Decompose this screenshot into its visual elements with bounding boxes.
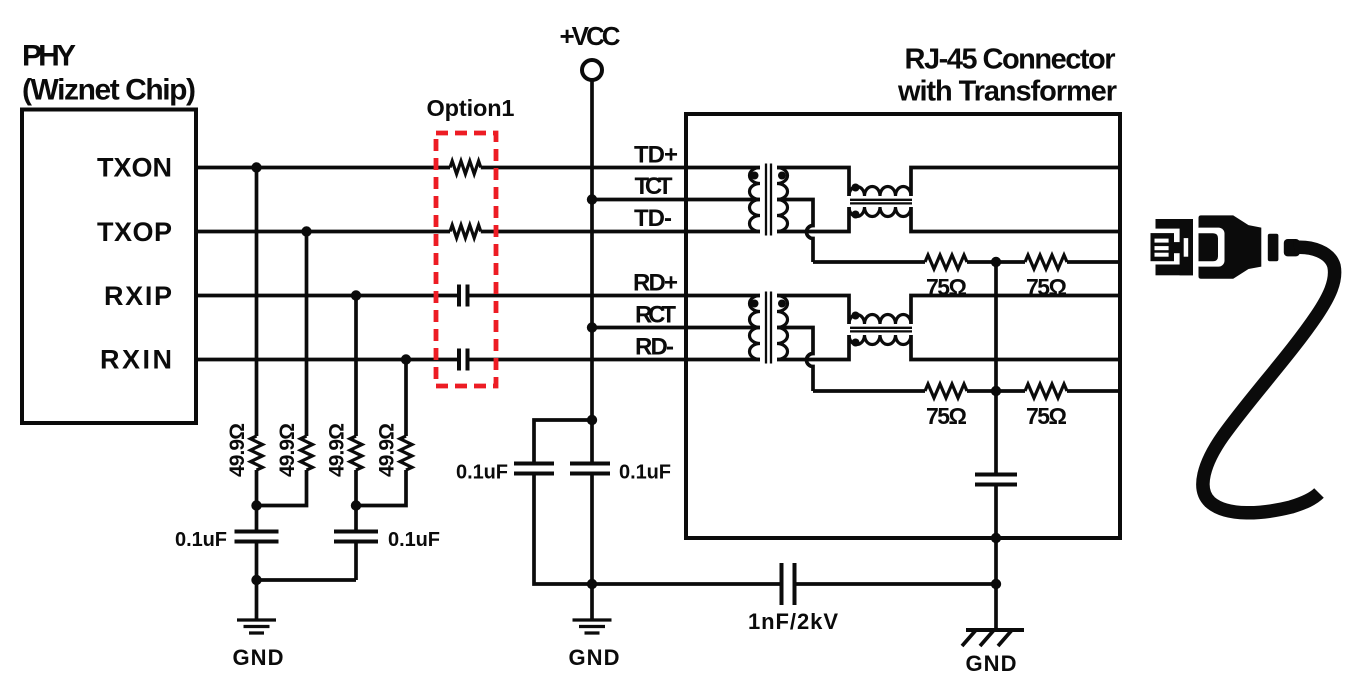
junction VCC-RCT	[587, 322, 597, 332]
transformer T1 core	[766, 164, 771, 236]
svg-text:RXIN: RXIN	[100, 345, 172, 375]
svg-text:TXON: TXON	[97, 153, 172, 183]
capacitor C5 0.1uF	[514, 464, 554, 474]
socket bottom band	[1156, 265, 1194, 276]
plug body	[1199, 215, 1262, 278]
resistor R10 75 ohm	[1025, 384, 1067, 398]
choke L2 bottom winding	[849, 335, 911, 345]
junction on box bottom	[991, 533, 1001, 543]
svg-text:RD+: RD+	[633, 270, 678, 297]
wire TXOP drop to R2	[305, 232, 309, 437]
svg-text:Option1: Option1	[427, 95, 515, 121]
capacitor C3 (Option1 series, RXIP/RD+ line)	[459, 285, 468, 307]
svg-text:+VCC: +VCC	[560, 21, 621, 51]
choke L2 phase dots	[852, 312, 860, 320]
wire RXIN from PHY to C4	[196, 358, 457, 362]
plug boot bar	[1268, 234, 1279, 262]
junction node D	[587, 579, 597, 589]
wire L2 top output to RJ45 pin	[911, 296, 1120, 325]
resistor R7 75 ohm	[925, 255, 967, 269]
junction node TXON	[251, 162, 261, 172]
ground GND3 chassis	[994, 584, 998, 630]
transformer T2 core	[766, 292, 771, 364]
svg-text:RXIP: RXIP	[104, 281, 172, 311]
wire T2 secondary top to choke L2	[777, 296, 849, 325]
transformer T1 primary winding	[750, 168, 761, 232]
svg-text:TCT: TCT	[635, 173, 673, 200]
choke L1 core	[850, 200, 912, 204]
svg-text:RCT: RCT	[635, 302, 676, 329]
svg-text:RJ-45 Connector: RJ-45 Connector	[905, 44, 1116, 76]
wire T2 center tap drop with hop	[777, 328, 813, 392]
wire branch to C5	[534, 420, 592, 462]
wire R2 bottom to node A	[257, 470, 307, 506]
svg-text:49.9Ω: 49.9Ω	[226, 423, 249, 477]
capacitor C6 0.1uF	[570, 464, 610, 474]
wire center termination vertical	[994, 262, 998, 473]
wire GND rail to C8	[592, 582, 780, 586]
junction VCC-TCT	[587, 194, 597, 204]
resistor R9 75 ohm	[925, 384, 967, 398]
svg-text:0.1uF: 0.1uF	[175, 529, 227, 551]
wire T1 secondary bottom to L1	[777, 207, 849, 232]
resistor R5 (Option1 series, TXON/TD+ line)	[450, 161, 481, 174]
capacitor C7	[975, 475, 1017, 485]
choke L1 phase dots	[852, 184, 860, 192]
wire R6 to transformer T1 primary bottom (TD-)	[481, 230, 760, 234]
power terminal +VCC	[582, 60, 602, 80]
resistor R2 49.9 ohm	[301, 436, 313, 470]
svg-text:with Transformer: with Transformer	[897, 76, 1117, 108]
choke L1 bottom winding	[849, 207, 911, 217]
junction node G	[991, 579, 1001, 589]
wire bottom join C1-C2	[257, 578, 357, 582]
chip U1 PHY box	[22, 110, 196, 424]
svg-text:(Wiznet Chip): (Wiznet Chip)	[22, 74, 196, 107]
choke L1 top winding	[849, 187, 911, 197]
wire RXIP drop to R3	[354, 296, 358, 437]
transformer T1 secondary winding	[777, 168, 788, 232]
svg-text:0.1uF: 0.1uF	[456, 462, 508, 484]
wire TXON drop to R1	[255, 168, 259, 437]
svg-text:GND: GND	[966, 651, 1017, 676]
Option1 dashed outline	[436, 133, 496, 386]
svg-text:GND: GND	[569, 645, 620, 670]
resistor R4 49.9 ohm	[400, 436, 412, 470]
svg-text:TXOP: TXOP	[97, 217, 172, 247]
ground GND1	[255, 580, 259, 620]
choke L2 core	[850, 328, 912, 332]
svg-text:RD-: RD-	[635, 334, 674, 361]
RJ45 plug icon: socket top band	[1151, 215, 1300, 278]
transformer T2 phase dots	[751, 300, 759, 308]
capacitor C2 0.1uF	[354, 506, 358, 530]
wire TXOP from PHY to R6	[196, 230, 450, 234]
svg-text:TD-: TD-	[634, 205, 672, 232]
svg-text:75Ω: 75Ω	[926, 403, 967, 429]
resistor R8 75 ohm	[1025, 255, 1067, 269]
wire C3 to transformer T2 primary top (RD+)	[470, 294, 761, 298]
svg-text:GND: GND	[233, 645, 284, 670]
wire L1 top output to RJ45 pin	[911, 168, 1120, 197]
wire RXIN drop to R4	[404, 360, 408, 437]
svg-text:49.9Ω: 49.9Ω	[326, 423, 349, 477]
transformer T2 secondary winding	[777, 296, 788, 360]
capacitor C1 0.1uF	[255, 506, 259, 530]
socket right column	[1180, 219, 1193, 275]
capacitor C4 (Option1 series, RXIN/RD- line)	[459, 349, 468, 371]
choke L2 top winding	[849, 315, 911, 325]
wire RCT from VCC to T2 center tap	[592, 326, 760, 330]
ethernet cable	[1203, 247, 1335, 512]
svg-text:PHY: PHY	[22, 40, 76, 73]
wire R7 to node E	[967, 260, 1025, 264]
svg-text:1nF/2kV: 1nF/2kV	[748, 609, 838, 634]
plug body notch (white)	[1194, 228, 1225, 267]
transformer T2 primary winding	[750, 296, 761, 360]
plug body inner block	[1199, 233, 1219, 261]
wire R9 to node F	[967, 389, 1025, 393]
resistor R6 (Option1 series, TXOP/TD- line)	[450, 225, 481, 238]
svg-text:TD+: TD+	[634, 142, 678, 169]
junction node A	[251, 500, 261, 510]
wire L1 bottom output to RJ45 pin	[911, 207, 1120, 232]
ground GND2	[590, 584, 594, 620]
wire VCC vertical	[590, 80, 594, 462]
svg-text:49.9Ω: 49.9Ω	[276, 423, 299, 477]
wire TCT from VCC to T1 center tap	[592, 198, 760, 202]
plug tab	[1174, 242, 1182, 253]
resistor R3 49.9 ohm	[350, 436, 362, 470]
junction node F	[991, 386, 1001, 396]
junction VCC-caps	[587, 415, 597, 425]
wire R4 bottom to node B	[356, 470, 406, 506]
junction node RXIP	[351, 290, 361, 300]
junction node E	[991, 257, 1001, 267]
junction node RXIN	[401, 354, 411, 364]
wire termination rail 1	[813, 260, 925, 264]
wire T1 center tap drop with hop	[777, 200, 813, 263]
cable stub	[1284, 239, 1300, 256]
wire T1 secondary top to choke L1	[777, 168, 849, 197]
wire RXIP from PHY to C3	[196, 294, 457, 298]
transformer T1 phase dots	[751, 172, 759, 180]
plug face pins (white stripes)	[1155, 239, 1169, 243]
wire R8 to RJ45 pin	[1067, 260, 1120, 264]
socket slot (white)	[1184, 238, 1189, 257]
svg-text:75Ω: 75Ω	[1026, 403, 1067, 429]
junction node C	[251, 575, 261, 585]
wire termination rail 2	[813, 389, 925, 393]
wire L2 bottom output to RJ45 pin	[911, 335, 1120, 360]
svg-text:0.1uF: 0.1uF	[619, 462, 671, 484]
svg-text:49.9Ω: 49.9Ω	[376, 423, 399, 477]
wire R10 to RJ45 pin	[1067, 389, 1120, 393]
wire TXON from PHY to R5	[196, 166, 450, 170]
wire T2 secondary bottom to L2	[777, 335, 849, 360]
resistor R1 49.9 ohm	[251, 436, 263, 470]
plug face block	[1151, 233, 1175, 261]
svg-text:0.1uF: 0.1uF	[388, 529, 440, 551]
junction node B	[351, 500, 361, 510]
wire C4 to transformer T2 primary bottom (RD-)	[470, 358, 761, 362]
capacitor C8 1nF/2kV	[782, 563, 795, 605]
wire R5 to transformer T1 primary top (TD+)	[481, 166, 760, 170]
RJ-45 connector module box	[686, 114, 1120, 538]
junction node TXOP	[301, 226, 311, 236]
